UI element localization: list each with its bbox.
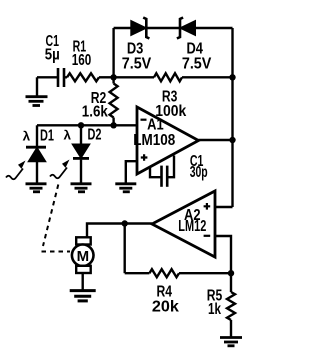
svg-text:LM108: LM108 xyxy=(133,132,175,149)
wire R3 to right rail xyxy=(182,76,233,78)
svg-text:30p: 30p xyxy=(190,164,208,181)
svg-text:5µ: 5µ xyxy=(45,46,60,63)
resistor R2 1.6k xyxy=(110,77,118,125)
node motor-output junction dot xyxy=(122,220,128,226)
svg-text:1.6k: 1.6k xyxy=(82,104,108,121)
zener D3 xyxy=(132,18,150,39)
wire A2 output to motor xyxy=(87,224,152,238)
wire node A to R3 xyxy=(114,76,154,78)
wire A1 output to right rail xyxy=(199,139,233,141)
resistor R4 20k xyxy=(149,269,179,277)
node R2 bottom junction dot xyxy=(110,122,116,128)
photodiode D1 xyxy=(26,125,46,183)
node D2 junction dot xyxy=(78,122,84,128)
ground motor xyxy=(70,291,96,301)
svg-text:D2: D2 xyxy=(88,127,102,144)
ground A1 input xyxy=(115,184,136,192)
svg-text:λ: λ xyxy=(23,129,31,144)
wire to R4 xyxy=(125,272,150,274)
right rail wire xyxy=(231,28,233,207)
top rail wire xyxy=(114,27,233,29)
svg-text:160: 160 xyxy=(72,52,92,69)
resistor R3 100k xyxy=(154,73,182,81)
ground D2 xyxy=(71,184,92,192)
ground R5 xyxy=(220,338,242,346)
svg-text:7.5V: 7.5V xyxy=(182,55,212,72)
wire ground to C1 xyxy=(37,76,57,78)
wire R4 to feedback node xyxy=(179,272,231,274)
node R3-rail junction dot xyxy=(229,74,235,80)
svg-text:D1: D1 xyxy=(40,128,54,145)
svg-text:7.5V: 7.5V xyxy=(122,55,152,72)
node R4-R5 junction dot xyxy=(228,270,234,276)
photodiode D2 xyxy=(73,125,89,183)
svg-text:A1: A1 xyxy=(147,116,164,133)
light arrow at D2 xyxy=(50,160,70,179)
wire output node down xyxy=(123,224,125,274)
node A junction dot xyxy=(110,74,116,80)
zener D4 xyxy=(177,18,195,39)
op-amp A2 LM12 xyxy=(152,191,215,257)
wire R1 to node A xyxy=(99,76,114,78)
ground input G1 xyxy=(26,77,48,105)
ground D1 xyxy=(26,184,47,192)
node wire to photodiodes and A1 inverting input xyxy=(37,124,137,126)
wire node A up to top rail xyxy=(112,28,114,77)
mechanical link dashed wire xyxy=(42,185,71,252)
resistor R1 160 xyxy=(67,73,99,81)
wire A2 inverting input down to feedback node xyxy=(215,236,231,273)
capacitor C1 5u xyxy=(58,68,64,87)
svg-text:λ: λ xyxy=(64,128,72,143)
svg-text:LM12: LM12 xyxy=(178,218,206,235)
wire A1 noninverting input to ground xyxy=(126,161,137,183)
motor M xyxy=(72,237,94,289)
capacitor C1 30p compensation xyxy=(150,156,174,187)
wire C1 to R1 xyxy=(65,76,67,78)
light arrow at D1 xyxy=(6,161,26,180)
wire right rail to A2 noninverting input xyxy=(215,206,233,208)
node A1 output junction dot xyxy=(229,137,235,143)
op-amp A1 LM108 xyxy=(137,107,199,174)
svg-text:20k: 20k xyxy=(152,298,179,315)
svg-text:M: M xyxy=(77,248,90,265)
svg-text:1k: 1k xyxy=(208,301,221,318)
resistor R5 1k xyxy=(227,273,235,336)
